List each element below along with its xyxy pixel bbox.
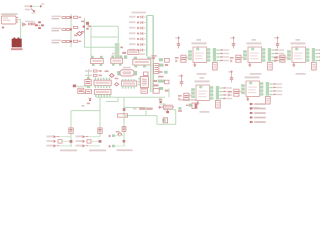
- pad+box at U corner: [162, 118, 167, 123]
- status LED row 3: [250, 112, 266, 115]
- resistor network RN3: [133, 53, 151, 67]
- pin header JP1 (two-row): [94, 78, 111, 88]
- stub net y101.5: [106, 97, 118, 101]
- supply net GND flag: [25, 9, 36, 14]
- marks below net: [82, 98, 92, 107]
- resistor network RN2: [111, 53, 123, 66]
- status LED list: [250, 103, 266, 106]
- vertical resistor pack RP1: [154, 64, 159, 74]
- inline part on y116 net: [118, 114, 128, 117]
- pads right of RN2: [122, 52, 127, 59]
- status LED row 2: [250, 107, 266, 110]
- right column parts y78-95: [151, 64, 169, 94]
- resistors R1 R2 series: [28, 21, 35, 25]
- resistor R14: [85, 90, 91, 94]
- input row 1: [52, 16, 82, 20]
- transistor T4 box: [161, 105, 174, 113]
- diode D1: [22, 21, 29, 27]
- main horizontal net y97.3: [96, 96, 165, 98]
- long net y115.6: [124, 115, 157, 117]
- LED D3: [129, 21, 147, 24]
- bridge/crystal cluster Q1: [35, 21, 44, 29]
- LED D8: [129, 48, 147, 51]
- optocoupler IC5: [228, 71, 282, 109]
- input row 3: [52, 40, 82, 44]
- optocoupler IC1: [175, 37, 229, 75]
- junction cluster top-left of bus fold: [86, 22, 91, 30]
- wire LED bus right vertical: [152, 16, 154, 93]
- right column pads and parts x158-170: [159, 58, 169, 66]
- status LED row 5: [250, 121, 266, 124]
- marks x178 y109: [178, 107, 182, 112]
- small marks x115 y78: [115, 78, 119, 86]
- LED D2: [129, 15, 147, 18]
- connector X1 (power jack): [1, 16, 18, 24]
- resistor R11 row: [85, 74, 102, 76]
- junction on x124: [123, 108, 126, 111]
- LED D7: [129, 43, 147, 46]
- regulator IC6 (vertical): [138, 77, 148, 94]
- net U-shape right: [157, 110, 176, 124]
- buzzer SG1 (filled): [11, 38, 23, 51]
- wire LED bus top join: [147, 15, 153, 17]
- optocoupler IC3: [274, 37, 320, 75]
- net L-shape left: [71, 111, 100, 137]
- wire right column drop: [168, 89, 170, 98]
- marks near 105,70: [105, 70, 114, 77]
- net branch y107.5: [124, 107, 146, 109]
- small header H1: [128, 50, 139, 54]
- capacitors C24 C25 labels: [133, 106, 161, 110]
- junction marks on bus: [81, 21, 85, 33]
- second vertical bus: [84, 18, 86, 47]
- input rows bus (vertical): [70, 14, 72, 47]
- polarity mark under X1: [2, 26, 4, 29]
- LED D5: [129, 32, 147, 35]
- connector X1 label: [1, 13, 18, 14]
- resistor R10 row: [85, 70, 102, 72]
- LED bus verticals: [146, 16, 148, 57]
- marks right of RN3: [151, 55, 156, 59]
- small red marks on bus: [120, 47, 122, 49]
- label text right of T4: [180, 99, 197, 101]
- vertical wire to C10: [88, 69, 90, 79]
- status LED row 4: [250, 116, 266, 119]
- LED D6: [129, 37, 147, 40]
- capacitor C10 (2-pin vertical): [85, 77, 91, 88]
- marks below RN3: [144, 72, 148, 76]
- bottom group T3: [109, 116, 133, 151]
- cluster with pad x186-197: [186, 103, 197, 109]
- transistor group T1: [47, 128, 78, 151]
- LED column labels header: [132, 12, 147, 14]
- sensor part S1: [73, 85, 91, 88]
- LED D4: [129, 26, 147, 29]
- optocoupler IC2: [230, 37, 284, 75]
- capacitor C11: [78, 88, 86, 94]
- wire X1 to buzzer: [18, 20, 20, 39]
- pin header JP2 (two-row lower): [94, 89, 111, 97]
- net drop x124: [123, 97, 125, 115]
- net drop x100: [99, 97, 101, 136]
- pin header JP3: [121, 79, 136, 89]
- input row 2: [52, 26, 83, 36]
- optocoupler IC4: [178, 75, 232, 113]
- marks near 159,99: [159, 99, 163, 103]
- bottom group T1: [70, 131, 72, 148]
- net drop x146: [145, 108, 147, 116]
- supply net +5V top-left: [25, 3, 45, 8]
- wire branch x160: [160, 97, 165, 111]
- resistor network RN1: [91, 56, 104, 66]
- bus fold rectangle wires: [84, 26, 118, 56]
- oscillator Y1 (rounded): [117, 67, 137, 76]
- thick bus to IC2: [115, 43, 120, 58]
- bottom group T2: [76, 128, 107, 151]
